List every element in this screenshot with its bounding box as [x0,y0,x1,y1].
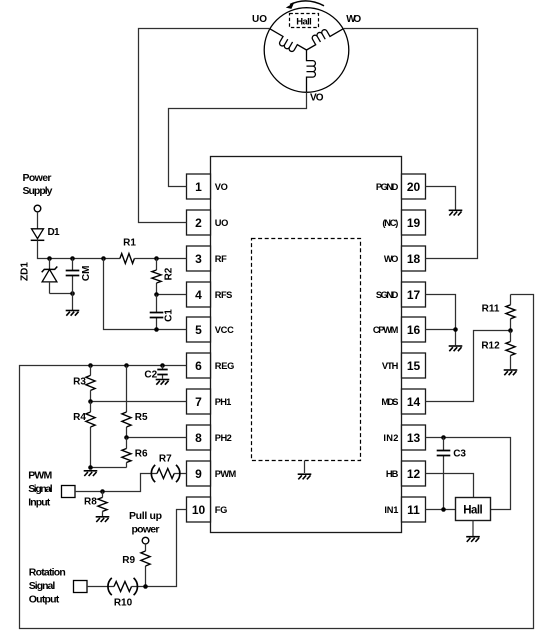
svg-text:Pull up: Pull up [129,510,162,522]
junction R4/R6 ground node [88,465,93,470]
svg-text:FG: FG [215,505,228,515]
resistor R12 [510,331,512,370]
svg-text:16: 16 [407,323,421,337]
pin 12 (HB) [402,461,426,486]
svg-text:17: 17 [407,288,421,302]
junction PWM input/R8 node [100,489,105,494]
svg-text:D1: D1 [48,227,60,238]
svg-text:Signal: Signal [28,483,53,495]
svg-text:PWM: PWM [28,470,52,482]
ground below R12 [504,369,518,371]
svg-text:power: power [132,524,160,536]
ground below R4 tie [84,470,98,472]
resistor R8 [102,492,104,517]
pin 7 (PH1) [187,389,211,414]
svg-text:Power: Power [23,172,52,184]
wire VCC rail to pin 5 [104,259,187,330]
svg-text:3: 3 [195,252,202,266]
ground below C2 [156,379,170,381]
pin 5 (VCC) [187,317,211,342]
pin 4 (RFS) [187,282,211,307]
pin 6 (REG) [187,353,211,378]
svg-text:Rotation: Rotation [29,567,66,579]
svg-text:VTH: VTH [382,361,399,371]
wire output to R10 to FG pin 10 [87,510,187,587]
wire PWM input to R7 to pin 9 [75,474,187,492]
resistor R5 [126,366,128,438]
resistor R6 [126,438,128,468]
wire PGND pin 20 to ground [426,187,456,210]
resistor R7 (optional) [157,469,174,479]
junction IN1/C3 node [441,507,446,512]
svg-text:PWM: PWM [215,469,237,479]
svg-text:15: 15 [407,359,421,373]
capacitor C3 [443,438,445,510]
junction R11/R12/MDS node [508,328,513,333]
wire SGND pin 17 [426,295,456,330]
ground below R8 [96,516,110,518]
junction dots on supply rail [47,256,52,261]
svg-text:R11: R11 [482,304,500,315]
capacitor C2 [162,366,164,379]
power supply terminal [34,205,41,212]
wire IN2 pin 13 to hall [426,438,511,510]
svg-text:5: 5 [195,323,202,337]
junction ZD1/CM tie [70,291,75,296]
junction R5/R6/PH2 node [124,435,129,440]
svg-text:14: 14 [407,395,421,409]
svg-text:Hall: Hall [296,17,312,28]
rotation output terminal [74,581,88,593]
svg-text:R5: R5 [135,412,148,423]
pin 2 (UO) [187,210,211,235]
ground below CM [72,294,74,311]
wire REG rail pin 6 and outer loop to R11 [20,295,534,629]
svg-text:CPWM: CPWM [373,325,399,335]
wire VO net: motor to pin 1 [169,92,307,186]
resistor R4 [90,402,92,468]
junction R2/C1/RFS node [154,292,159,297]
wire UO net: motor to pin 2 [139,29,270,223]
zener diode ZD1 [49,259,51,270]
wire HB pin 12 to hall top [426,474,474,498]
wire R4/R6 ground tie [91,467,127,469]
junction R9/R10/FG node [143,584,148,589]
svg-text:R12: R12 [481,341,500,352]
svg-text:ZD1: ZD1 [19,262,30,281]
svg-text:19: 19 [407,216,421,230]
resistor R9 [145,544,147,587]
svg-text:VO: VO [215,182,228,192]
svg-text:HB: HB [386,469,399,479]
capacitor C1 [156,295,158,330]
coil W winding [302,21,343,50]
pull up terminal [142,537,149,544]
pin 10 (FG) [187,497,211,522]
svg-text:13: 13 [407,431,421,445]
svg-text:C3: C3 [453,449,466,460]
wire hall to ground [472,521,474,537]
wire IN1 pin 11 to hall [426,509,456,511]
junction R3/R4/PH1 node [88,399,93,404]
svg-text:R6: R6 [135,449,148,460]
resistor R10 (optional) [114,582,132,592]
svg-text:SGND: SGND [376,290,399,300]
svg-text:Signal: Signal [29,580,56,592]
coil U winding [265,29,306,58]
pin 9 (PWM) [187,461,211,486]
resistor R2 [156,259,158,295]
pin 16 (CPWM) [402,317,426,342]
svg-text:R1: R1 [123,238,136,249]
svg-text:PH1: PH1 [215,397,232,407]
svg-text:12: 12 [407,467,421,481]
pin 15 (VTH) [402,353,426,378]
svg-text:R7: R7 [159,453,172,464]
wire MDS pin 14 to divider [426,331,511,402]
ground below hall [466,536,480,538]
svg-text:8: 8 [195,431,202,445]
svg-text:C1: C1 [163,309,174,322]
svg-text:2: 2 [195,216,202,230]
svg-text:11: 11 [407,503,420,517]
motor M1 outline [264,8,349,93]
svg-text:UO: UO [215,218,229,228]
pin 8 (PH2) [187,425,211,450]
svg-text:MDS: MDS [381,397,398,407]
svg-text:6: 6 [195,359,202,373]
IC internal ground [304,461,306,474]
wire PH2 pin 8 [127,437,187,439]
svg-text:RFS: RFS [215,290,233,300]
svg-text:Input: Input [28,496,51,508]
pin 19 ((NC)) [402,210,426,235]
hall sensor U2 [456,498,491,521]
coil V winding [307,50,316,92]
wire ZD1 to CM bottom tie [50,293,73,295]
pin 3 (RF) [187,246,211,271]
svg-text:R2: R2 [163,267,174,280]
hall element in motor [290,14,319,28]
svg-text:10: 10 [192,503,206,517]
pin 14 (MDS) [402,389,426,414]
wire WO net: motor to pin 18 [343,29,477,259]
svg-text:Supply: Supply [23,185,53,197]
svg-text:18: 18 [407,252,421,266]
svg-text:VCC: VCC [215,325,234,335]
pin 13 (IN2) [402,425,426,450]
svg-text:9: 9 [195,467,202,481]
svg-text:IN2: IN2 [383,433,398,443]
wire terminal to D1 [37,212,39,229]
svg-text:(NC): (NC) [382,218,398,228]
motor rotation arrow [290,1,324,6]
ground PGND [449,209,463,211]
junction C1/VCC node [154,327,159,332]
svg-text:R3: R3 [73,376,86,387]
svg-text:R8: R8 [84,497,97,508]
junction SGND/CPWM node [453,327,458,332]
svg-text:R9: R9 [122,555,135,566]
svg-text:IN1: IN1 [384,505,398,515]
capacitor CM [72,259,74,294]
pin 1 (VO) [187,174,211,199]
svg-text:CM: CM [81,266,92,282]
resistor R3 [90,366,92,402]
wire CPWM pin 16 [426,330,456,346]
svg-text:4: 4 [195,288,202,302]
svg-text:R10: R10 [114,597,133,608]
svg-text:RF: RF [215,254,227,264]
wire D1 to supply rail to R1 to pin 3 [38,240,187,258]
pin 20 (PGND) [402,174,426,199]
resistor R1 [120,254,134,264]
svg-text:R4: R4 [73,412,86,423]
diode D1 [32,229,44,239]
svg-text:PH2: PH2 [215,433,232,443]
pin 11 (IN1) [402,497,426,522]
wire PH1 pin 7 [91,401,187,403]
IC U1 body [211,157,402,533]
svg-text:VO: VO [310,93,324,104]
svg-text:7: 7 [195,395,202,409]
svg-text:UO: UO [252,14,267,25]
ground SGND/CPWM [449,345,463,347]
svg-text:C2: C2 [144,370,157,381]
pin 18 (WO) [402,246,426,271]
svg-text:Hall: Hall [463,505,483,517]
svg-text:1: 1 [195,180,202,194]
svg-text:Output: Output [29,593,60,605]
svg-text:WO: WO [384,254,399,264]
pin 17 (SGND) [402,282,426,307]
svg-text:WO: WO [346,14,361,25]
svg-text:PGND: PGND [376,182,399,192]
svg-text:20: 20 [407,180,421,194]
svg-text:REG: REG [215,361,235,371]
IC inner dashed block [252,239,361,461]
junction IN2/C3 node [441,435,446,440]
PWM input terminal [62,486,76,498]
wire R2 to pin 4 [157,294,187,296]
junctions on REG rail [88,363,93,368]
resistor R11 [510,295,512,331]
